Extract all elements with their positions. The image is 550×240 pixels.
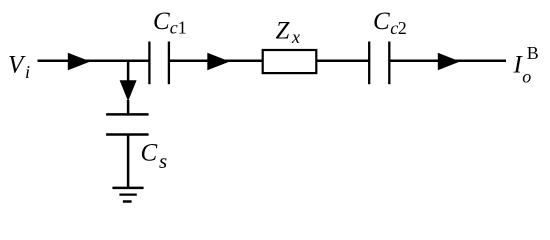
svg-text:i: i bbox=[25, 62, 30, 82]
svg-text:C: C bbox=[373, 8, 390, 35]
svg-text:1: 1 bbox=[178, 18, 187, 38]
svg-text:V: V bbox=[8, 51, 26, 78]
svg-text:B: B bbox=[527, 43, 539, 63]
svg-text:C: C bbox=[153, 8, 170, 35]
svg-text:s: s bbox=[159, 149, 167, 173]
svg-text:C: C bbox=[141, 140, 158, 167]
svg-text:c: c bbox=[170, 18, 178, 38]
svg-text:2: 2 bbox=[398, 18, 407, 38]
svg-text:Z: Z bbox=[276, 18, 291, 45]
svg-text:o: o bbox=[522, 67, 531, 87]
svg-text:x: x bbox=[291, 27, 300, 47]
